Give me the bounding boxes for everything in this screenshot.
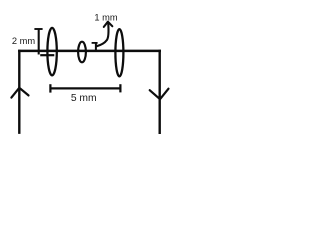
dimension 2 mm: top cap bbox=[34, 28, 42, 30]
dimension 1 mm: curved leader arrow bbox=[96, 22, 112, 47]
label: 2 mm bbox=[12, 36, 35, 46]
dimension 1 mm: tick stem bbox=[95, 43, 97, 51]
label: 5 mm bbox=[71, 93, 97, 104]
dimension 1 mm: tick cap bbox=[92, 42, 98, 44]
loop L3 (right large loop) bbox=[115, 29, 123, 76]
label: 1 mm bbox=[94, 13, 117, 23]
dimension 5 mm: left end bar bbox=[49, 84, 51, 92]
current arrow (down) on right lead bbox=[150, 89, 169, 100]
wire: right vertical lead bbox=[158, 50, 160, 134]
dimension 2 mm: stem bbox=[38, 29, 40, 55]
svg-text:5 mm: 5 mm bbox=[71, 93, 97, 104]
current arrow (up) on left lead bbox=[11, 88, 28, 98]
svg-text:1 mm: 1 mm bbox=[94, 13, 117, 23]
loop L1 (left large loop) bbox=[47, 28, 56, 75]
wire stub (wrap of loop L1 under the bus) bbox=[40, 54, 54, 56]
wire: left vertical lead bbox=[18, 50, 20, 134]
dimension 5 mm: right end bar bbox=[119, 84, 121, 92]
dimension 5 mm: horizontal line bbox=[50, 87, 120, 89]
svg-text:2 mm: 2 mm bbox=[12, 36, 35, 46]
wire: main horizontal bus bbox=[18, 50, 161, 53]
loop L2 (small middle loop) bbox=[78, 42, 86, 63]
